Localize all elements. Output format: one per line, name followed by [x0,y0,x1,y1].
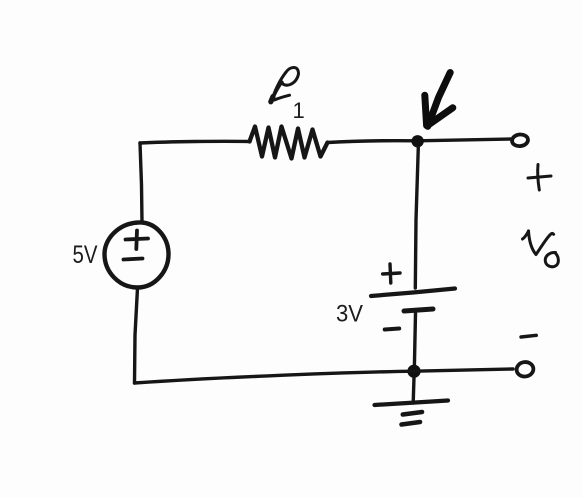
wire top-left vertical (source top to corner) [140,143,142,222]
label R1 (handwritten script R) [271,67,299,101]
battery 3V positive plate (long) [371,289,455,297]
wire top horizontal left segment [140,141,250,143]
resistor R1 [250,127,328,159]
voltage source minus mark [124,259,143,260]
voltage source plus mark [126,231,149,250]
wire bottom horizontal (left corner to node B) [135,371,415,383]
wire node B to right terminal [414,369,513,371]
battery 3V negative plate (short) [404,309,433,311]
ground symbol [375,401,449,425]
wire middle vertical (node A to battery) [415,147,418,288]
label vo (handwritten script v with subscript o) [523,231,559,267]
label plus (output polarity, handwritten) [528,165,551,191]
node B junction dot [407,365,420,378]
terminal circle bottom right [516,361,535,378]
battery minus polarity mark [385,329,400,330]
ground stub wire [412,377,416,403]
wire source bottom to bottom-left corner [135,288,138,383]
voltage source V1 circle [105,222,169,287]
svg-text:3V: 3V [336,301,364,328]
wire top horizontal right segment to terminal [328,139,511,143]
current arrow annotation pointing at node A [424,73,453,127]
svg-text:1: 1 [293,98,305,123]
label minus (output polarity, handwritten) [521,335,536,337]
wire battery to node B [414,313,415,371]
node A junction dot [411,135,423,147]
battery plus polarity mark [383,264,400,283]
svg-text:5V: 5V [73,241,98,269]
terminal circle top right [511,134,528,147]
